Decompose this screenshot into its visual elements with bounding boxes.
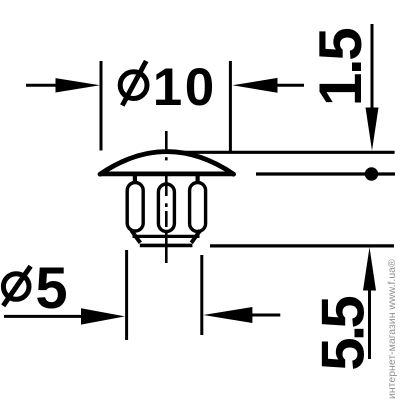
cap dome [100,152,234,175]
extension line left of Ø5 [125,250,128,340]
1.5 dimension line with down arrow [366,24,379,151]
svg-text:10: 10 [153,58,217,117]
rib capsule center [158,184,174,232]
extension line right of Ø5 [200,255,203,335]
Ø10 right dimension arrow [232,78,304,93]
rib capsule left [127,183,143,232]
svg-text:1.5: 1.5 [306,29,374,106]
5.5 dimension line with up arrow [363,247,376,359]
label Ø10 diameter symbol [120,61,147,106]
cap flange base bar [100,171,234,176]
shank wall left [133,176,137,231]
extension line left of Ø10 [100,61,103,151]
Ø5 left dimension arrow [4,308,125,324]
bottom depth line [210,244,394,247]
reference dot [365,167,378,180]
reference line with dot [256,172,395,175]
bottom chamfer left [131,230,140,243]
surface top line [171,151,395,154]
svg-text:5.5: 5.5 [309,297,376,371]
extension line right of Ø10 [229,61,232,152]
cap bottom line [140,244,193,248]
bowl mid line [133,235,200,238]
svg-text:интернет-магазин www.f.ua®: интернет-магазин www.f.ua® [386,259,398,399]
rib capsule right [190,183,206,232]
shank wall right [196,176,200,231]
Ø10 left dimension arrow [26,78,100,92]
svg-text:5: 5 [35,256,67,321]
Ø5 right dimension arrow [203,307,280,323]
label Ø5 diameter symbol [3,266,30,306]
center axis line (dash-dot) [165,131,168,263]
bottom chamfer right [191,230,200,243]
